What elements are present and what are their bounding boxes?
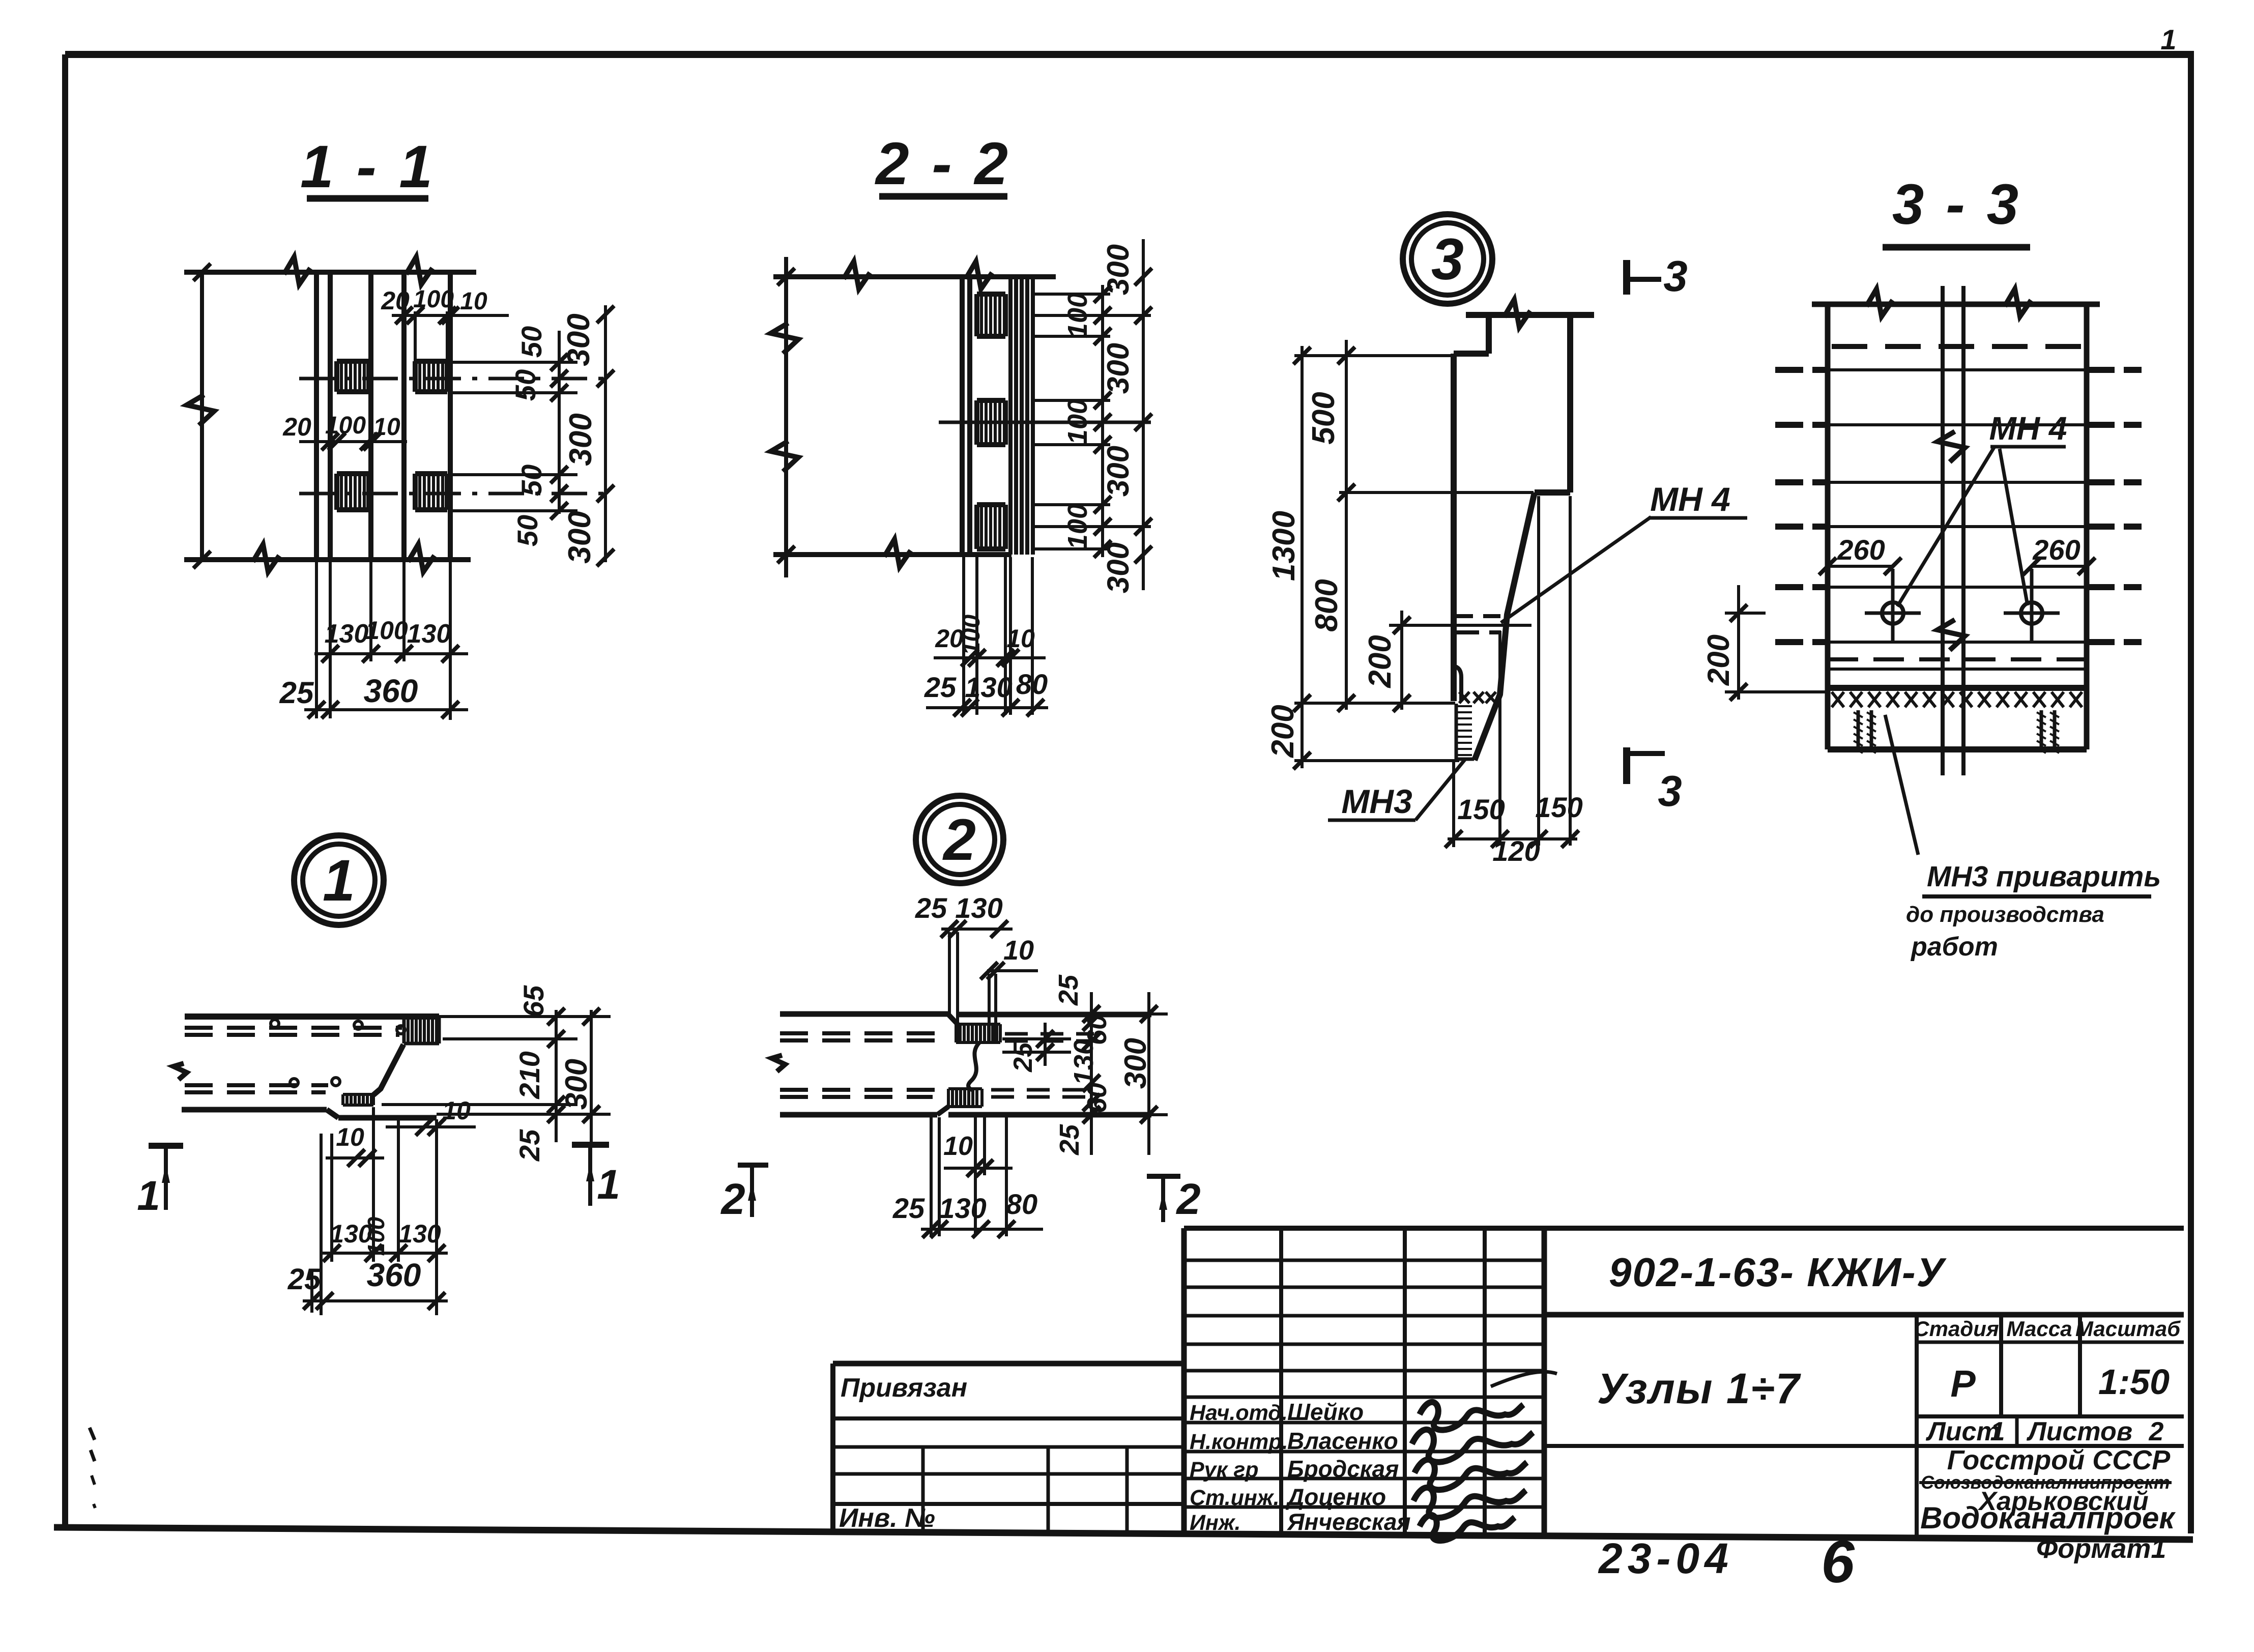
svg-text:300: 300 xyxy=(1101,244,1135,295)
svg-text:Узлы 1÷7: Узлы 1÷7 xyxy=(1597,1365,1801,1412)
svg-text:210: 210 xyxy=(513,1051,545,1099)
svg-text:100: 100 xyxy=(413,286,454,313)
svg-text:130: 130 xyxy=(325,619,369,649)
svg-text:260: 260 xyxy=(2032,534,2080,566)
svg-text:1: 1 xyxy=(323,848,355,913)
svg-text:10: 10 xyxy=(1003,935,1034,966)
svg-text:130: 130 xyxy=(939,1192,986,1224)
svg-text:300: 300 xyxy=(1101,542,1135,593)
svg-text:23-04: 23-04 xyxy=(1598,1534,1733,1582)
svg-text:902-1-63- КЖИ-У: 902-1-63- КЖИ-У xyxy=(1609,1250,1947,1295)
svg-text:20: 20 xyxy=(381,286,410,315)
svg-text:2: 2 xyxy=(942,807,976,873)
svg-text:1300: 1300 xyxy=(1266,511,1302,581)
svg-text:Водоканалпроек: Водоканалпроек xyxy=(1920,1501,2176,1535)
svg-text:25: 25 xyxy=(1053,974,1084,1006)
svg-text:10: 10 xyxy=(336,1123,364,1151)
svg-text:Р: Р xyxy=(1950,1363,1976,1405)
svg-text:130: 130 xyxy=(955,892,1002,924)
svg-text:МН3: МН3 xyxy=(1341,782,1412,820)
svg-text:260: 260 xyxy=(1837,534,1885,566)
svg-text:360: 360 xyxy=(364,673,418,709)
svg-text:100: 100 xyxy=(363,1216,389,1256)
svg-text:2: 2 xyxy=(1175,1175,1200,1224)
svg-text:Масса: Масса xyxy=(2007,1317,2072,1341)
svg-text:10: 10 xyxy=(373,414,400,441)
svg-text:300: 300 xyxy=(1101,446,1135,497)
svg-text:25: 25 xyxy=(892,1192,925,1224)
svg-text:3: 3 xyxy=(1658,767,1682,816)
svg-text:800: 800 xyxy=(1309,579,1344,631)
svg-text:МН3 приварить: МН3 приварить xyxy=(1927,860,2161,893)
svg-text:6: 6 xyxy=(1821,1528,1855,1596)
svg-text:Формат1: Формат1 xyxy=(2036,1533,2166,1564)
svg-text:50: 50 xyxy=(515,326,547,358)
svg-text:Стадия: Стадия xyxy=(1914,1317,1999,1341)
svg-text:300: 300 xyxy=(1118,1038,1152,1089)
svg-text:1: 1 xyxy=(597,1162,620,1208)
svg-text:130: 130 xyxy=(407,619,451,649)
svg-text:300: 300 xyxy=(559,1059,593,1110)
svg-text:работ: работ xyxy=(1910,932,1998,962)
svg-text:Госстрой СССР: Госстрой СССР xyxy=(1947,1445,2171,1475)
svg-text:Инв. №: Инв. № xyxy=(839,1503,935,1533)
svg-text:80: 80 xyxy=(1016,668,1048,700)
svg-text:Рук гр: Рук гр xyxy=(1190,1458,1259,1482)
svg-text:300: 300 xyxy=(561,313,596,366)
svg-text:100: 100 xyxy=(1062,399,1093,445)
svg-text:100: 100 xyxy=(365,616,408,645)
svg-text:130: 130 xyxy=(965,671,1012,703)
svg-text:65: 65 xyxy=(517,985,550,1017)
svg-text:10: 10 xyxy=(943,1132,973,1161)
svg-text:Листов: Листов xyxy=(2026,1417,2132,1446)
svg-text:100: 100 xyxy=(325,412,366,439)
svg-text:Привязан: Привязан xyxy=(841,1373,967,1403)
svg-text:50: 50 xyxy=(515,465,547,496)
svg-text:3 - 3: 3 - 3 xyxy=(1892,172,2021,236)
svg-text:до производства: до производства xyxy=(1906,902,2104,927)
svg-text:120: 120 xyxy=(1492,835,1540,867)
svg-text:150: 150 xyxy=(1535,791,1582,823)
svg-text:25: 25 xyxy=(279,676,314,710)
svg-text:200: 200 xyxy=(1363,635,1398,688)
svg-text:1: 1 xyxy=(1990,1417,2005,1446)
svg-text:20: 20 xyxy=(282,413,311,441)
svg-text:25: 25 xyxy=(513,1129,545,1162)
svg-text:100: 100 xyxy=(1062,504,1093,549)
svg-text:1: 1 xyxy=(137,1173,160,1219)
svg-text:3: 3 xyxy=(1663,252,1687,301)
svg-text:3: 3 xyxy=(1431,227,1464,292)
svg-text:Нач.отд.: Нач.отд. xyxy=(1190,1401,1288,1425)
svg-text:Ст.инж.: Ст.инж. xyxy=(1190,1486,1280,1510)
svg-text:2: 2 xyxy=(720,1175,745,1224)
svg-text:Инж.: Инж. xyxy=(1190,1511,1241,1535)
svg-text:130: 130 xyxy=(1068,1039,1099,1085)
svg-text:Масштаб: Масштаб xyxy=(2075,1317,2181,1341)
svg-text:1: 1 xyxy=(2160,23,2176,55)
svg-text:25: 25 xyxy=(1054,1124,1085,1155)
svg-text:100: 100 xyxy=(958,615,985,655)
svg-text:25: 25 xyxy=(1008,1042,1038,1073)
svg-text:360: 360 xyxy=(367,1257,421,1293)
svg-text:Власенко: Власенко xyxy=(1287,1428,1398,1454)
svg-text:1:50: 1:50 xyxy=(2098,1362,2170,1402)
svg-text:Н.контр.: Н.контр. xyxy=(1190,1430,1288,1454)
svg-text:200: 200 xyxy=(1701,634,1736,686)
svg-text:10: 10 xyxy=(460,288,487,315)
svg-text:50: 50 xyxy=(509,369,541,401)
svg-text:МН 4: МН 4 xyxy=(1989,410,2067,447)
svg-text:Янчевская: Янчевская xyxy=(1287,1509,1411,1535)
svg-text:1 - 1: 1 - 1 xyxy=(300,133,436,200)
svg-text:130: 130 xyxy=(398,1220,441,1248)
svg-text:Шейко: Шейко xyxy=(1287,1399,1364,1425)
svg-text:Доценко: Доценко xyxy=(1285,1484,1386,1510)
svg-text:10: 10 xyxy=(1006,624,1035,653)
svg-text:25: 25 xyxy=(287,1263,321,1296)
svg-text:200: 200 xyxy=(1265,705,1301,758)
svg-text:60: 60 xyxy=(1082,1083,1112,1113)
svg-text:150: 150 xyxy=(1457,793,1505,825)
svg-text:25: 25 xyxy=(915,892,947,924)
svg-text:МН 4: МН 4 xyxy=(1650,480,1730,518)
svg-text:100: 100 xyxy=(1062,293,1093,338)
svg-text:300: 300 xyxy=(563,413,598,466)
svg-text:80: 80 xyxy=(1006,1188,1037,1220)
svg-text:Лист: Лист xyxy=(1925,1417,2000,1446)
svg-text:500: 500 xyxy=(1306,392,1341,444)
svg-text:2 - 2: 2 - 2 xyxy=(875,130,1011,197)
svg-text:2: 2 xyxy=(2149,1417,2164,1446)
svg-text:10: 10 xyxy=(442,1096,471,1125)
svg-text:300: 300 xyxy=(562,511,597,563)
svg-text:25: 25 xyxy=(924,671,957,703)
svg-text:Бродская: Бродская xyxy=(1287,1456,1399,1482)
svg-text:300: 300 xyxy=(1101,343,1135,394)
svg-text:50: 50 xyxy=(511,515,543,546)
